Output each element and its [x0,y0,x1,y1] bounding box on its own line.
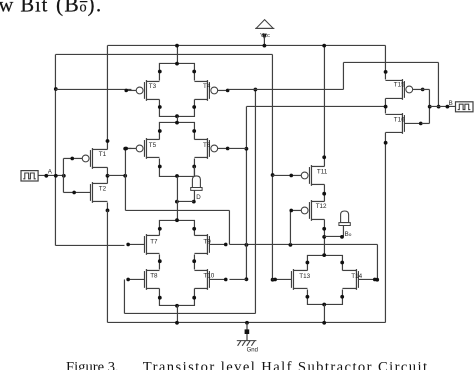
junction dot [158,259,162,263]
wire net A top rail [55,53,272,55]
figure caption [66,360,428,370]
junction T4 gate line [254,88,258,92]
wire T16 source to ground [384,132,386,322]
LED indicator Bo bulb [339,211,350,226]
wire down to T14 gate [376,244,378,279]
transistor T1 [70,148,107,169]
junction bracket center [322,303,326,307]
input source B (pulse generator) [456,102,474,112]
junction dot [158,129,162,133]
junction dot [306,261,310,265]
junction Vcc-rail [263,44,267,48]
transistor T5 [124,138,159,159]
wire node D stem down to T7/T9 [176,176,178,220]
wire net A to T3 gate [55,88,131,90]
svg-text:T4: T4 [203,83,211,90]
junction dot [158,165,162,169]
svg-text:T15: T15 [394,82,405,89]
transistor T4 [194,80,229,101]
junction dot [158,227,162,231]
junction rail/T11 stem [322,44,326,48]
junction [289,243,293,247]
junction dot [158,70,162,74]
wire Vcc drop to T1 source [106,45,108,141]
wire T15 drain - T16 drain [384,98,386,113]
wire fork to T1/T2 gates [62,158,64,192]
wire A-bar vertical [124,148,126,210]
wire LED D to node stem [176,200,193,202]
wire A-bar down to T9 gate [228,210,230,244]
junction T13 gate [271,278,275,282]
junction net A to T3 gate [54,87,58,91]
wire T6 gate line [228,147,246,149]
junction hook / B wire [428,105,432,109]
pin dot T6 drain / LED D anode [192,165,196,169]
svg-text:T13: T13 [299,273,310,280]
junction net B [437,105,441,109]
junction node A-bar [106,174,110,178]
wire T9-T10 series [193,254,195,269]
wire LED Bo cathode [342,225,344,236]
wire Vcc rail (top) [107,44,385,46]
pin dot T16 source [384,141,388,145]
wire net T9-T12-T14 [229,243,377,245]
wire Vcc rail down to T15 source [384,45,386,79]
junction dot [322,321,326,325]
LED indicator D [191,176,202,191]
wire T5/T6 drain bracket [159,158,194,176]
junction A wire / left vertical [54,174,58,178]
pin dot T11 source [322,155,326,159]
transistor T11 [289,165,327,186]
wire up to T8 gate [123,279,125,313]
wire B input [429,105,455,107]
junction LED Bo [340,235,344,239]
wire vertical x246 [245,106,247,279]
wire T1 drain - T2 drain [106,167,108,183]
wire to T1 gate [63,157,73,159]
wire T2 source to ground rail [106,210,108,322]
pin dot A source [44,174,48,178]
svg-text:T1: T1 [99,151,107,158]
power symbol Vcc [255,20,274,46]
wire gate hook vertical [428,89,430,123]
transistor T16 [385,113,422,134]
wire T8/T10 bottom bracket [159,288,194,305]
ground symbol Gnd [237,323,258,354]
junction dot [192,259,196,263]
junction bracket center [322,253,326,257]
junction T10 gate [245,277,249,281]
wire ground rail [107,321,385,323]
wire T5/T6 source bracket [159,122,194,139]
pin dot T1 source [106,139,110,143]
svg-text:Figure 3.: Figure 3. [66,360,119,370]
svg-text:w Bit: w Bit [0,0,48,16]
junction T6 gate [245,147,249,151]
svg-text:T12: T12 [316,203,327,210]
input source A (pulse generator) [21,171,38,181]
junction bracket center bottom [175,114,179,118]
junction dot [306,295,310,299]
junction dot [192,227,196,231]
transistor T7 [126,234,159,255]
wire T11 gate line [272,174,291,176]
junction Bo wire [322,235,326,239]
wire T3/T4 drain bracket [159,99,194,116]
svg-text:T7: T7 [150,239,158,246]
junction dot [192,296,196,300]
svg-text:Gnd: Gnd [247,348,258,354]
transistor T14 [342,269,376,290]
svg-text:).: ). [88,0,103,16]
junction bracket center [175,304,179,308]
transistor T10 [194,269,227,290]
pin dot T12 source [322,227,326,231]
wire net B right vertical [437,62,439,106]
junction A wire / fork [62,174,66,178]
wire LED D cathode [193,190,195,201]
wire T16 gate hook [421,122,429,124]
svg-text:D: D [196,194,201,201]
transistor T13 [273,269,310,290]
junction dot [192,70,196,74]
wire T2 source stub [106,202,108,210]
junction dot [192,129,196,133]
svg-text:T6: T6 [203,142,211,149]
junction rail/stem [175,44,179,48]
junction node D [175,174,179,178]
page header text fragment "w Bit (Bo)." [0,0,103,16]
wire T11 drain - T12 drain [323,184,325,201]
svg-text:Transistor level Half Subtract: Transistor level Half Subtractor Circuit [143,360,429,370]
transistor T8 [126,269,159,290]
wire T7-T8 series [158,254,160,269]
pin dot T5 gate [123,147,127,151]
svg-text:T16: T16 [394,117,405,124]
wire T12 gate vertical [289,210,291,244]
svg-text:T3: T3 [149,83,157,90]
junction dot [158,105,162,109]
wire T4 gate to net B [228,88,343,90]
wire A input [38,174,63,176]
wire net B-bar horizontal [246,105,385,107]
wire LED D anode [193,166,195,176]
junction dot [340,261,344,265]
wire net B vertical mid [342,62,344,89]
pin dot T2 source [106,209,110,213]
wire net A to T7 gate [55,244,124,246]
junction T11 gate [271,173,275,177]
junction bracket center [175,121,179,125]
junction bracket center [175,218,179,222]
junction dot [192,105,196,109]
wire T3/T4 to T5/T6 [176,116,178,122]
wire T1 source stub [106,141,108,149]
transistor T12 [289,200,327,221]
svg-text:o: o [80,0,87,15]
transistor T6 [194,138,229,159]
transistor T15 [385,79,424,100]
transistor T3 [124,80,159,101]
junction LED D cathode [192,200,196,204]
wire Vcc to T11 source [323,45,325,166]
svg-text:Bo: Bo [345,231,352,238]
junction dot [158,296,162,300]
wire net B top route [343,61,438,63]
wire A-bar node to vertical [107,174,125,176]
junction dot [245,321,249,325]
junction [322,192,326,196]
wire T7/T9 top bracket [159,220,194,235]
svg-text:T11: T11 [317,168,328,175]
wire to ground rail [323,304,325,322]
wire block to ground rail [176,305,178,322]
junction dot [175,321,179,325]
wire A-bar to T5 gate [125,147,131,149]
junction T14 gate [375,278,379,282]
wire T13 gate line [272,278,274,280]
svg-text:T14: T14 [351,273,362,280]
wire to T2 gate [63,191,74,193]
junction dot [340,295,344,299]
wire T13/T14 top bracket [307,255,342,270]
svg-text:T5: T5 [149,142,157,149]
junction bracket center top [175,62,179,66]
svg-text:A: A [48,169,53,176]
wire T13/T14 bottom bracket [307,289,342,304]
wire rail to T3/T4 bracket [176,45,178,63]
wire net A right vertical [271,54,273,279]
svg-text:T2: T2 [99,185,107,192]
svg-text:T8: T8 [150,273,158,280]
junction stem/LED wire [175,200,179,204]
svg-text:Vcc: Vcc [260,33,270,39]
wire T10 gate line [229,278,246,280]
svg-text:T9: T9 [203,239,211,246]
svg-text:B: B [449,100,453,107]
transistor T2 [72,182,107,203]
wire net T4-T8 bottom [124,312,255,314]
junction [245,243,249,247]
wire T3/T4 source bracket [159,63,194,80]
junction A-bar vertical [123,174,127,178]
pin dot B source [446,105,450,109]
junction net B-bar [384,105,388,109]
svg-text:T10: T10 [203,273,214,280]
wire Bo to stem [324,235,342,237]
wire net T4-T8 vertical [254,89,256,313]
pin dot T15 source [384,70,388,74]
wire T15 gate hook [421,88,429,90]
svg-text:(B: (B [56,0,80,16]
wire T12 source down to T13/T14 [323,219,325,255]
wire A-bar route [125,209,229,211]
wire net A left vertical [54,54,56,245]
transistor T9 [194,234,227,255]
